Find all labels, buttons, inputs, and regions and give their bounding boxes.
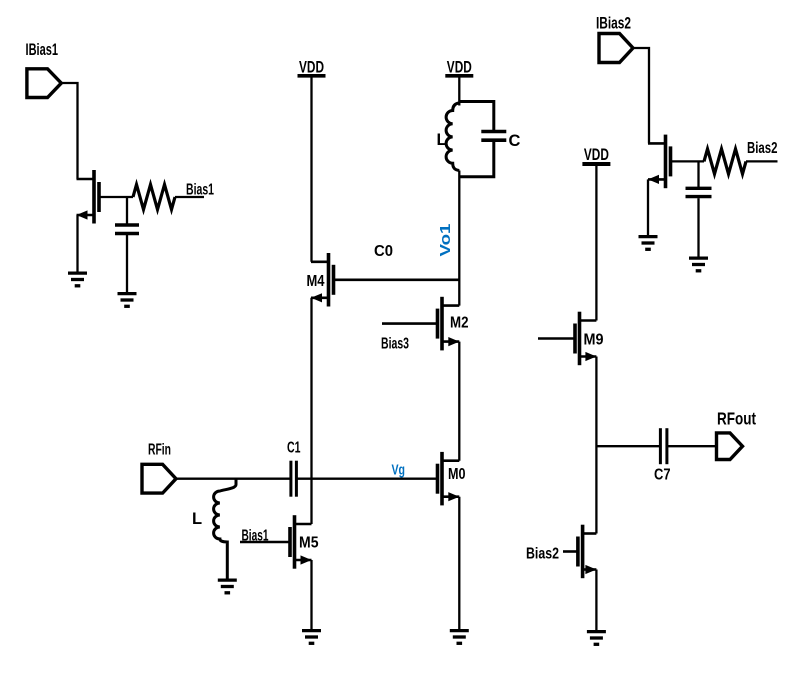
svg-text:M4: M4 — [307, 273, 325, 290]
transistor M2 — [438, 297, 460, 351]
svg-text:Bias1: Bias1 — [242, 527, 269, 544]
wire tank top branch — [459, 102, 494, 131]
wire Q2 gate to resistor R2 — [671, 160, 705, 162]
ground under degeneration inductor — [218, 580, 237, 593]
svg-text:IBias1: IBias1 — [26, 40, 59, 59]
svg-text:Bias2: Bias2 — [526, 545, 559, 562]
transistor Q1 (IBias1 mirror device) — [77, 170, 100, 224]
wire node to capacitor CB2 — [697, 161, 699, 187]
svg-text:VDD: VDD — [299, 58, 324, 76]
ground under M0 — [450, 631, 469, 644]
wire M5 source to ground — [310, 560, 312, 629]
wire M9 gate stub — [538, 337, 575, 340]
wire RFin to C1 — [176, 478, 290, 480]
capacitor C1 — [291, 461, 297, 497]
ground under Q1 — [68, 273, 87, 286]
svg-text:L: L — [192, 510, 202, 528]
wire VDD to M9 drain — [595, 164, 597, 321]
ground under Mout — [587, 632, 606, 645]
wire M0 source to ground — [458, 497, 460, 629]
svg-text:Bias2: Bias2 — [747, 140, 778, 157]
svg-text:C1: C1 — [287, 440, 301, 457]
wire VDD to M4 drain — [310, 76, 312, 262]
port IBias2 — [599, 34, 633, 63]
wire IBias1 port to Q1 drain — [61, 83, 77, 179]
transistor M9 — [575, 312, 596, 366]
wire tank bottom to M2 drain (node Vo1) — [458, 171, 460, 306]
svg-text:VDD: VDD — [447, 58, 472, 76]
wire output node to C7 — [596, 445, 660, 447]
capacitor C7 — [660, 428, 667, 464]
wire C7 to RFout — [667, 445, 717, 447]
svg-text:C7: C7 — [654, 467, 671, 484]
wire M2 source to M0 drain — [458, 342, 460, 461]
wire M2 gate stub — [382, 322, 438, 325]
svg-text:Bias1: Bias1 — [186, 182, 214, 199]
wire CB2 to ground — [697, 198, 699, 256]
wire M5 gate stub — [240, 541, 290, 544]
inductor L (tank) — [446, 103, 459, 171]
svg-text:M5: M5 — [299, 535, 319, 552]
svg-text:RFin: RFin — [148, 442, 171, 459]
ground under M5 — [302, 631, 321, 644]
svg-text:RFout: RFout — [717, 408, 756, 428]
transistor Mout (output bias device) — [578, 525, 597, 579]
svg-text:M9: M9 — [584, 331, 604, 348]
wire Q1 source to ground — [76, 215, 78, 272]
wire C1 to M0 gate (node Vg) — [296, 478, 437, 480]
svg-text:C: C — [509, 132, 521, 150]
wire Q1 gate to resistor R1 — [99, 196, 133, 198]
wire M4 source down to M5 drain — [310, 298, 312, 524]
svg-text:M0: M0 — [448, 466, 466, 483]
wire CB1 to ground — [126, 235, 128, 292]
ground under CB2 — [689, 258, 708, 271]
port RFin — [142, 464, 176, 493]
capacitor CB2 — [686, 188, 712, 196]
port IBias1 — [27, 69, 61, 98]
svg-text:M2: M2 — [450, 315, 469, 332]
svg-text:C0: C0 — [374, 243, 393, 260]
wire Mout source to ground — [595, 570, 597, 631]
ground under Q2 — [639, 237, 658, 250]
wire node to capacitor CB1 — [126, 197, 128, 224]
transistor M0 — [438, 452, 460, 506]
wire M4 gate to Vo1 node — [334, 278, 460, 281]
svg-text:L: L — [437, 131, 447, 149]
wire tank right branch lower — [459, 142, 494, 177]
svg-text:Vg: Vg — [392, 462, 406, 479]
power VDD (tank column) — [445, 58, 473, 76]
wire VDD to tank top — [458, 76, 460, 106]
inductor L (degeneration) — [214, 479, 236, 579]
wire Mout gate stub — [563, 550, 578, 553]
capacitor C (tank) — [481, 132, 506, 141]
svg-text:Vo1: Vo1 — [437, 224, 454, 257]
wire R2 to Bias2 — [746, 160, 778, 162]
transistor Q2 (IBias2 mirror device) — [648, 135, 671, 189]
svg-text:VDD: VDD — [584, 146, 609, 164]
svg-text:IBias2: IBias2 — [596, 14, 631, 33]
port RFout — [717, 433, 743, 460]
power VDD (right column) — [582, 146, 610, 164]
resistor R2 — [704, 149, 746, 174]
transistor M4 — [311, 253, 334, 307]
power VDD (left column) — [298, 58, 326, 76]
wire R1 to Bias1 — [175, 196, 204, 198]
wire Q2 source to ground — [647, 179, 649, 235]
transistor M5 — [290, 515, 312, 569]
resistor R1 — [133, 185, 175, 210]
capacitor CB1 — [115, 225, 139, 234]
wire IBias2 port to Q2 drain — [633, 48, 649, 143]
wire M9 source to Mout drain — [595, 357, 597, 534]
ground under CB1 — [118, 294, 137, 307]
svg-text:Bias3: Bias3 — [381, 335, 409, 352]
